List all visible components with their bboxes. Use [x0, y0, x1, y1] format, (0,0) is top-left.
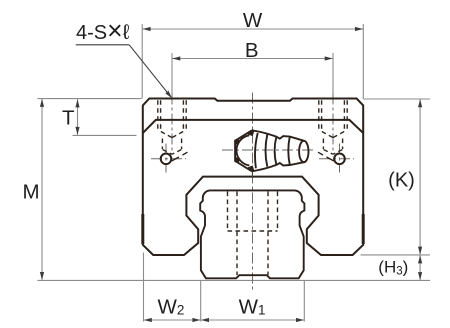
extension line B left [171, 53, 173, 94]
leader line 4-S×l [129, 45, 171, 97]
bolt hole right pilot V [324, 150, 343, 155]
svg-text:T: T [62, 107, 75, 130]
arrow B right [325, 56, 333, 60]
extension line T bottom [73, 134, 137, 136]
svg-text:(K): (K) [388, 170, 415, 192]
end seal thick edge left [141, 214, 144, 244]
rail through hole right [267, 192, 269, 276]
centerline screw circle left vertical [165, 144, 167, 173]
extension line W1 right (rail right) [303, 281, 305, 322]
arrow W2 right [192, 318, 200, 322]
screw tick right [327, 157, 334, 161]
dimension line B [172, 58, 333, 60]
extension line bottom (M bottom / H3 bottom, rail base level) [38, 279, 431, 281]
rail counterbore right [277, 192, 279, 232]
extension line W right [362, 24, 364, 99]
dimension line K [419, 100, 421, 255]
centerline bolt hole right [332, 94, 334, 153]
arrow W right [355, 27, 363, 31]
svg-text:M: M [22, 180, 39, 203]
bolt hole right thread-end V [322, 132, 344, 138]
bolt hole right inner pair [321, 100, 323, 131]
arrow W1 left [201, 318, 209, 322]
arrow W left [143, 27, 151, 31]
screw circle left [161, 154, 172, 165]
extension line B right [332, 53, 334, 94]
centerline screw circle right horizontal [319, 158, 354, 160]
arrow W1 right [296, 318, 304, 322]
nipple thread ring 1 [255, 133, 258, 168]
rail counterbore bottom [228, 230, 278, 232]
screw circle right [334, 154, 345, 165]
nipple tip end ellipse [299, 141, 308, 162]
nipple dome [236, 135, 249, 165]
arrow M bottom [40, 272, 44, 280]
extension line block-bottom right (K bottom / H3 top) [361, 254, 431, 256]
screw tick right dash [318, 152, 323, 155]
arrow M top [40, 99, 44, 107]
centerline screw circle right vertical [339, 144, 341, 173]
svg-text:W: W [243, 9, 263, 32]
arrow H3 top [418, 255, 422, 263]
arrow leader 4-S×l [165, 91, 172, 99]
arrow K top [418, 99, 422, 107]
dimension line W [142, 28, 363, 30]
nipple collar arc [288, 137, 290, 165]
arrow T bottom [75, 127, 79, 135]
centerline vertical main [252, 93, 254, 292]
extension line W2 left [143, 253, 145, 322]
rail cross-section [200, 190, 304, 278]
bolt hole right outer pair [318, 100, 320, 131]
dimension line W1 [201, 319, 304, 321]
top plate parting line [143, 120, 363, 133]
arrow B left [172, 56, 180, 60]
bolt hole left inner pair [160, 100, 162, 131]
arrow K bottom [418, 247, 422, 255]
svg-text:B: B [245, 39, 259, 62]
nipple body top edge [252, 130, 304, 141]
dimension line T [77, 99, 79, 135]
arrow H3 bottom [418, 272, 422, 280]
dimension line W2 [144, 319, 200, 321]
extension line W2/W1 middle (rail left) [200, 281, 202, 322]
screw tick left [172, 157, 179, 161]
extension line top-left (M/T top) [38, 98, 142, 100]
dimension line H3 [419, 256, 421, 280]
centerline screw circle left horizontal [151, 158, 186, 160]
screw tick left dash [183, 152, 188, 155]
centerline nipple horizontal [222, 149, 313, 151]
rail counterbore left [227, 192, 229, 232]
nipple thread ring 2 [266, 135, 268, 167]
carriage block silhouette [143, 99, 363, 256]
bolt hole right pilot pair [322, 139, 324, 150]
arrow W2 left [144, 318, 152, 322]
bolt hole left pilot pair [161, 139, 163, 150]
centerline bolt hole left [171, 94, 173, 153]
end seal thick edge right [362, 214, 365, 244]
svg-text:(H3): (H3) [378, 257, 408, 277]
nipple hex corner shadows [235, 130, 255, 172]
bolt hole left outer pair [157, 100, 159, 131]
rail through hole left [236, 192, 238, 276]
leader underline [76, 44, 129, 46]
nipple hex flange [235, 130, 252, 171]
arrow T top [75, 99, 79, 107]
dimension line M [41, 99, 43, 280]
extension line K top [363, 98, 430, 100]
bolt hole left thread-end V [161, 132, 183, 138]
bolt hole left pilot V [163, 150, 182, 155]
nipple thread ring 3 [275, 137, 277, 165]
nipple stem centerline solid bit [251, 172, 253, 177]
nipple body bottom edge [252, 162, 304, 171]
extension line W left [141, 24, 143, 99]
